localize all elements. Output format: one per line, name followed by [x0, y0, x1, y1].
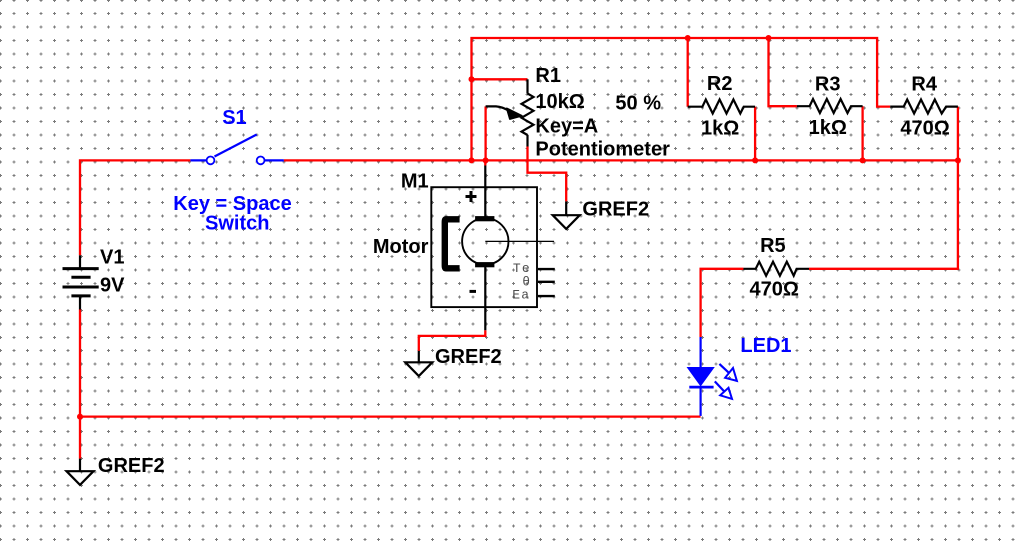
svg-text:50 %: 50 %	[615, 93, 661, 115]
svg-text:M1: M1	[401, 171, 429, 193]
svg-text:470Ω: 470Ω	[900, 117, 949, 139]
svg-text:V1: V1	[100, 246, 124, 268]
svg-text:1kΩ: 1kΩ	[701, 117, 739, 139]
svg-text:10kΩ: 10kΩ	[535, 91, 584, 113]
svg-text:Key=A: Key=A	[535, 115, 598, 137]
svg-text:Switch: Switch	[205, 213, 269, 235]
svg-text:470Ω: 470Ω	[750, 278, 799, 300]
svg-text:9V: 9V	[100, 275, 125, 297]
svg-text:R4: R4	[911, 74, 937, 96]
svg-text:Te: Te	[513, 261, 531, 276]
svg-text:1kΩ: 1kΩ	[809, 117, 847, 139]
svg-text:Potentiometer: Potentiometer	[535, 139, 670, 161]
svg-text:S1: S1	[222, 107, 246, 129]
svg-text:Motor: Motor	[373, 236, 429, 258]
svg-text:LED1: LED1	[740, 335, 791, 357]
svg-text:GREF2: GREF2	[582, 199, 649, 221]
svg-text:GREF2: GREF2	[435, 346, 502, 368]
svg-text:Ea: Ea	[512, 287, 530, 302]
svg-text:R2: R2	[707, 73, 733, 95]
svg-text:GREF2: GREF2	[98, 455, 165, 477]
svg-text:R3: R3	[815, 74, 841, 96]
svg-text:R1: R1	[535, 65, 561, 87]
svg-text:R5: R5	[760, 235, 786, 257]
